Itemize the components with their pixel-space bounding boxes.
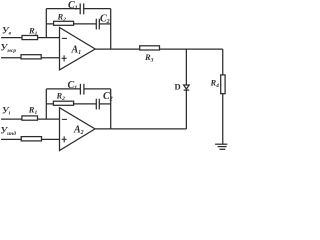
svg-text:R2: R2	[56, 91, 66, 102]
svg-text:A2: A2	[73, 125, 84, 137]
svg-text:D: D	[175, 82, 181, 92]
svg-text:Умср: Умср	[1, 44, 17, 54]
svg-text:C2: C2	[100, 14, 110, 26]
svg-text:R2: R2	[57, 12, 67, 23]
svg-text:A1: A1	[71, 45, 82, 57]
svg-text:R1: R1	[28, 26, 38, 37]
svg-text:Ув: Ув	[2, 27, 12, 37]
svg-text:R4: R4	[210, 78, 220, 89]
svg-text:R1: R1	[28, 105, 38, 116]
svg-text:Уинд: Уинд	[1, 127, 17, 137]
svg-text:R3: R3	[144, 52, 154, 63]
svg-text:C1: C1	[68, 80, 78, 92]
svg-text:C1: C1	[68, 0, 78, 12]
svg-text:Уi: Уi	[2, 107, 11, 117]
